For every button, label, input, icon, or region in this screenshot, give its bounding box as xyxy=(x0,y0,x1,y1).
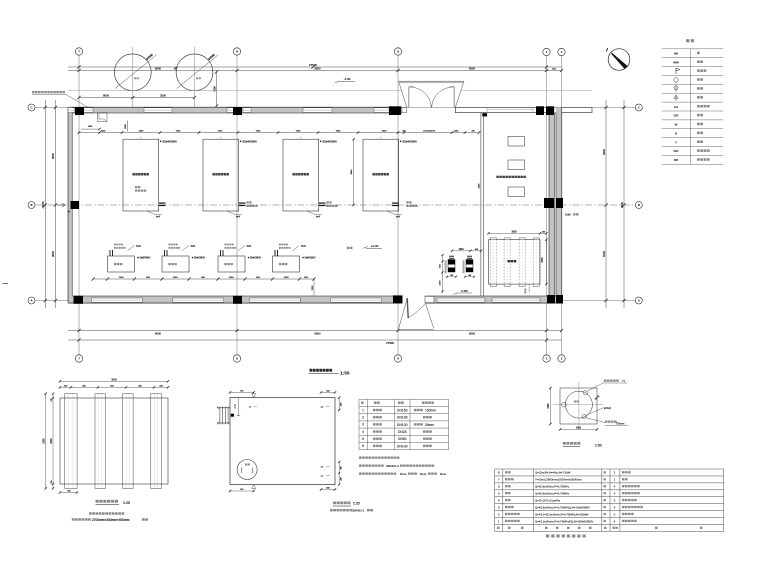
interior dimension line xyxy=(79,132,479,134)
tank pipe schedule header xyxy=(361,402,364,404)
svg-text:-1.50: -1.50 xyxy=(344,77,351,81)
window openings north wall xyxy=(68,108,75,113)
boiler B2 xyxy=(203,139,239,211)
right dimension lines xyxy=(605,100,607,308)
axis grid vertical lines xyxy=(78,55,80,355)
svg-text:9600: 9600 xyxy=(51,153,55,159)
svg-text:DN50: DN50 xyxy=(398,437,407,441)
svg-text:1500: 1500 xyxy=(173,277,179,279)
svg-text:2700mm×300mm×400mm: 2700mm×300mm×400mm xyxy=(92,518,130,522)
boiler B4 xyxy=(363,139,399,211)
double door north entrance xyxy=(408,87,410,108)
tank detail ladder anchor xyxy=(231,414,234,417)
tank detail nozzle marks xyxy=(252,394,256,398)
fan detail dims xyxy=(549,388,551,424)
svg-text:DN25: DN25 xyxy=(398,430,407,434)
tank detail pump circle xyxy=(237,460,257,480)
grating drain leader xyxy=(528,284,530,292)
svg-text:7: 7 xyxy=(498,478,500,482)
svg-text:250kW/380V: 250kW/380V xyxy=(162,140,177,144)
svg-text:8: 8 xyxy=(498,471,500,475)
boiler B3 xyxy=(283,139,319,211)
svg-text:10kV: 10kV xyxy=(565,213,571,217)
svg-text:5: 5 xyxy=(362,437,364,441)
interior partition wall xyxy=(480,113,482,296)
tank detail bottom dim xyxy=(230,490,254,492)
svg-text:9000: 9000 xyxy=(155,67,161,71)
svg-text:+0.00: +0.00 xyxy=(371,244,379,248)
svg-text:3: 3 xyxy=(362,423,364,427)
columns south wall xyxy=(74,296,84,304)
svg-text:1500: 1500 xyxy=(229,277,235,279)
svg-text:4: 4 xyxy=(362,430,364,434)
svg-text:NO: NO xyxy=(674,149,679,153)
fan detail square xyxy=(560,388,597,424)
svg-text:C: C xyxy=(638,106,640,110)
svg-text:6mm,: 6mm, xyxy=(420,472,427,476)
svg-text:Q=43.2m3/min,P=0.75MPaPQ,N=250: Q=43.2m3/min,P=0.75MPaPQ,N=250kW/380V xyxy=(535,519,594,523)
svg-text:150: 150 xyxy=(51,480,53,483)
svg-text:8000: 8000 xyxy=(103,94,109,98)
equipment table header row xyxy=(497,527,500,529)
svg-text:9000: 9000 xyxy=(315,331,321,335)
svg-text:3000: 3000 xyxy=(511,231,517,233)
east double wall xyxy=(549,107,555,302)
north wall west segment xyxy=(68,107,402,113)
legend row 3 xyxy=(675,68,677,74)
svg-text:5kW/380V: 5kW/380V xyxy=(250,257,261,260)
legend row 6 xyxy=(675,95,677,101)
svg-text:Q=45.8m3/min,P=0.75MPaQ,N=10kW: Q=45.8m3/min,P=0.75MPaQ,N=10kW/380V xyxy=(535,505,590,509)
svg-text:NH: NH xyxy=(674,158,678,162)
water tank T2 circle xyxy=(176,54,213,91)
svg-text:5: 5 xyxy=(498,491,500,495)
tank nozzle ticks xyxy=(254,406,257,408)
equipment table caption xyxy=(546,535,549,538)
pump P1 xyxy=(108,256,135,272)
columns north wall xyxy=(75,108,84,116)
svg-text:Q=43.0-43.2m3/min,P=0.75MPa,N=: Q=43.0-43.2m3/min,P=0.75MPa,N=250kW xyxy=(535,512,589,516)
tank pipe schedule table xyxy=(359,398,449,400)
svg-text:250kW/380V: 250kW/380V xyxy=(402,140,417,144)
apron line outside north wall xyxy=(68,90,401,92)
tank detail right dim xyxy=(338,398,340,410)
entrance canopy trapezoid xyxy=(399,80,465,82)
svg-text:3: 3 xyxy=(498,505,500,509)
svg-text:9000: 9000 xyxy=(469,331,475,335)
axis grid horizontal line B (dash-dot) xyxy=(35,204,636,206)
svg-text:9000: 9000 xyxy=(155,331,161,335)
pump base dim xyxy=(465,276,474,278)
grating dimension top xyxy=(489,232,547,234)
svg-text:750mm: 750mm xyxy=(616,423,624,426)
axis bubbles right xyxy=(635,104,642,111)
west wall opening arrow M xyxy=(57,203,65,207)
grate detail outline xyxy=(60,398,168,484)
axis bubbles top xyxy=(75,48,82,55)
fan detail title xyxy=(563,442,581,445)
svg-text:1400: 1400 xyxy=(284,277,290,279)
boiler bay centre dim extension xyxy=(140,136,142,139)
legend title xyxy=(686,39,694,42)
tank detail top dim xyxy=(230,391,254,393)
svg-text:WW: WW xyxy=(673,60,679,64)
svg-text:700: 700 xyxy=(450,275,453,277)
svg-text:b=0: b=0 xyxy=(156,215,161,218)
svg-text:9000: 9000 xyxy=(315,67,321,71)
legend row 4 xyxy=(674,78,678,82)
svg-text:3000: 3000 xyxy=(111,378,117,381)
svg-text:Q=50.8m3/min,P=0.75MPa: Q=50.8m3/min,P=0.75MPa xyxy=(535,491,569,495)
pump P3 xyxy=(218,256,245,272)
svg-text:1500: 1500 xyxy=(312,285,314,291)
svg-text:5x11: 5x11 xyxy=(191,246,197,248)
grate detail title xyxy=(96,500,118,503)
svg-text:6mm: 6mm xyxy=(440,472,447,476)
svg-text:1600: 1600 xyxy=(458,249,464,251)
svg-text:2200: 2200 xyxy=(439,280,441,286)
svg-text:150: 150 xyxy=(51,398,53,401)
electrical room label xyxy=(496,176,526,178)
svg-text:5kW/380V: 5kW/380V xyxy=(305,257,316,260)
grate detail top dims xyxy=(60,380,168,382)
pump base dim xyxy=(447,276,456,278)
left dimension lines xyxy=(44,100,46,308)
svg-text:27500: 27500 xyxy=(386,341,394,345)
interior vertical dim 4800 xyxy=(353,139,355,205)
svg-text:1: 1 xyxy=(498,519,500,523)
bottom dimension line bays xyxy=(68,330,562,332)
riser mark near north wall xyxy=(127,121,129,132)
svg-text:700: 700 xyxy=(468,275,471,277)
svg-text:2000: 2000 xyxy=(51,438,53,444)
equipment schedule table xyxy=(495,468,724,470)
svg-text:03R401-2: 03R401-2 xyxy=(352,509,365,513)
svg-text:03R401-2: 03R401-2 xyxy=(386,464,400,468)
svg-text:1800: 1800 xyxy=(576,428,582,430)
svg-text:V=20m3,2800mmx2500mmx3000mm: V=20m3,2800mmx2500mmx3000mm xyxy=(535,478,582,482)
svg-text:5200: 5200 xyxy=(602,251,606,257)
window openings south wall xyxy=(91,298,142,302)
svg-text:19200: 19200 xyxy=(41,201,45,209)
pump row dimension line xyxy=(93,278,314,280)
svg-text:1: 1 xyxy=(362,408,364,412)
sump pump dimensions xyxy=(452,250,481,252)
top dimension line overall 27500 xyxy=(68,66,562,68)
legend table xyxy=(662,48,723,50)
sub dimension 1000 xyxy=(81,128,100,130)
svg-text:150mm: 150mm xyxy=(425,408,436,412)
svg-text:250kW/380V: 250kW/380V xyxy=(322,140,337,144)
north wall east segment xyxy=(455,107,592,112)
svg-text:30mm: 30mm xyxy=(425,423,434,427)
grating dimension right xyxy=(545,240,547,284)
svg-text:9600: 9600 xyxy=(620,202,624,208)
svg-text:5x11: 5x11 xyxy=(301,246,307,248)
main plan title xyxy=(310,369,333,372)
grate detail bars xyxy=(65,394,77,489)
submersible pumps pair xyxy=(448,260,455,273)
svg-text:1:50: 1:50 xyxy=(595,444,602,448)
svg-text:1:50: 1:50 xyxy=(340,371,350,377)
svg-text:5kW/380V: 5kW/380V xyxy=(140,257,151,260)
tank schedule notes xyxy=(359,457,399,459)
svg-text:4800: 4800 xyxy=(351,169,353,175)
grate detail bottom dim xyxy=(60,492,77,494)
legend row 5 xyxy=(674,86,678,90)
grate detail left dims xyxy=(45,394,47,489)
svg-text:2600: 2600 xyxy=(602,149,606,155)
svg-text:500: 500 xyxy=(542,231,545,233)
drain pit symbol below north wall xyxy=(98,113,108,122)
svg-text:-0.150: -0.150 xyxy=(460,289,468,293)
room name label xyxy=(347,247,353,249)
svg-text:4: 4 xyxy=(498,498,500,502)
svg-text:200: 200 xyxy=(472,130,475,132)
svg-text:DN150: DN150 xyxy=(397,408,408,412)
svg-text:B: B xyxy=(638,203,640,207)
axis grid horizontal line C xyxy=(35,107,636,109)
tank detail level mark xyxy=(238,398,240,416)
pump P2 xyxy=(162,256,189,272)
electrical room panels xyxy=(508,137,525,147)
svg-text:DN100: DN100 xyxy=(397,444,408,448)
svg-text:Y: Y xyxy=(675,140,677,144)
svg-text:C: C xyxy=(30,106,32,110)
svg-text:A: A xyxy=(31,299,33,303)
axis grid horizontal line A xyxy=(35,300,636,302)
tank detail caption xyxy=(333,502,350,505)
top dimension line bays 9000 xyxy=(68,70,562,72)
svg-text:1◂: 1◂ xyxy=(249,406,251,409)
tank detail outline xyxy=(230,398,335,485)
svg-text:5kW/380V: 5kW/380V xyxy=(194,257,205,260)
fan detail circle xyxy=(565,391,592,418)
svg-text:φ50x4: φ50x4 xyxy=(604,407,612,410)
north arrow xyxy=(608,49,630,71)
pump dim drop line xyxy=(313,279,315,296)
foundation pit label with leader xyxy=(32,91,65,93)
tank vertical dimension xyxy=(216,72,218,106)
bottom dimension line overall 27500 xyxy=(68,339,562,341)
axis bubbles left xyxy=(28,104,35,111)
svg-text:9000: 9000 xyxy=(469,67,475,71)
svg-text:2: 2 xyxy=(498,512,500,516)
west wall xyxy=(68,107,72,302)
svg-text:27500: 27500 xyxy=(309,63,318,67)
water tank T1 circle xyxy=(114,54,151,91)
south door ramp xyxy=(399,298,408,329)
svg-text:250kW/380V: 250kW/380V xyxy=(242,140,257,144)
columns axis B xyxy=(71,201,80,209)
svg-text:2: 2 xyxy=(362,416,364,420)
svg-text:2306: 2306 xyxy=(43,438,45,444)
svg-text:DN100: DN100 xyxy=(397,423,408,427)
svg-text:6: 6 xyxy=(498,485,500,489)
svg-text:1:25: 1:25 xyxy=(353,502,360,506)
north-east wall window lines xyxy=(487,108,533,110)
svg-text:Q=50.8m3/min,P=0.75MPa: Q=50.8m3/min,P=0.75MPa xyxy=(535,485,569,489)
svg-text:9600: 9600 xyxy=(51,251,55,257)
fan detail rim ports xyxy=(562,402,567,407)
sump grating plan xyxy=(489,240,541,284)
svg-text:1500: 1500 xyxy=(119,277,125,279)
svg-text:M: M xyxy=(675,123,678,127)
svg-text:Q=25m3/h,H=40m,N=7.5kW: Q=25m3/h,H=40m,N=7.5kW xyxy=(535,471,571,475)
section mark left edge xyxy=(3,283,9,285)
tank dimension line xyxy=(79,97,195,99)
south wall xyxy=(68,296,562,303)
svg-text:Q=70.0/70.0,Vg=9m: Q=70.0/70.0,Vg=9m xyxy=(535,498,561,502)
svg-text:OR: OR xyxy=(674,114,679,118)
svg-text:6mm,: 6mm, xyxy=(400,472,407,476)
svg-text:HH: HH xyxy=(674,51,678,55)
svg-text:6: 6 xyxy=(362,444,364,448)
south door leaf and swing xyxy=(407,298,408,318)
boiler B1 xyxy=(123,139,159,211)
svg-text:1:25: 1:25 xyxy=(123,501,130,505)
tank detail ladder xyxy=(217,407,230,409)
column at partition top xyxy=(482,113,487,116)
svg-text:b=0: b=0 xyxy=(236,215,241,218)
fan detail leaders xyxy=(587,383,605,392)
svg-text:5x11: 5x11 xyxy=(136,246,142,248)
svg-text:3500: 3500 xyxy=(160,94,166,98)
svg-text:1800: 1800 xyxy=(548,403,550,409)
pump P4 xyxy=(273,256,300,272)
svg-text:B: B xyxy=(31,203,33,207)
svg-text:300: 300 xyxy=(402,130,405,132)
svg-text:DN100: DN100 xyxy=(397,416,408,420)
svg-text:A: A xyxy=(638,299,640,303)
svg-text:b=0: b=0 xyxy=(396,215,401,218)
svg-text:5x11: 5x11 xyxy=(247,246,253,248)
svg-text:2500: 2500 xyxy=(542,257,544,263)
grate detail notes xyxy=(89,512,124,514)
svg-text:1700x2000 M: 1700x2000 M xyxy=(423,130,435,132)
axis bubbles bottom xyxy=(75,355,82,362)
svg-text:b=0: b=0 xyxy=(316,215,321,218)
